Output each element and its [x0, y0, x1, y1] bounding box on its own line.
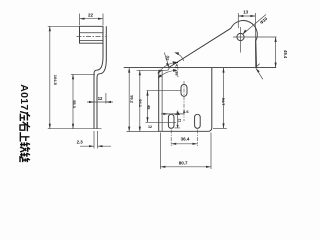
knuckle crosshair vertical: [240, 27, 242, 53]
slot2 centerline: [170, 130, 172, 147]
slot2 length arrows: [177, 112, 179, 128]
top width dim left ext: [79, 14, 81, 26]
dim 94.7 line: [223, 68, 225, 129]
svg-text:94.1: 94.1: [138, 99, 143, 108]
top width dim right ext: [102, 14, 104, 26]
corner angle arrow: [256, 68, 260, 72]
dim 49.4 line: [275, 37, 277, 68]
svg-text:38°: 38°: [174, 71, 179, 77]
dim 104.5 line: [49, 26, 51, 128]
step offset arrows: [89, 101, 111, 103]
svg-text:2.3: 2.3: [77, 139, 84, 144]
slot1 centerline: [183, 81, 185, 121]
knuckle crosshair horizontal: [233, 36, 277, 38]
dim 80.7 ext lines: [160, 133, 211, 170]
dim 13 line: [238, 15, 255, 17]
dim 99.2 line: [128, 68, 130, 132]
slot3 centerline: [196, 130, 198, 147]
dim 55.3 arrows: [72, 74, 74, 128]
svg-text:55.3: 55.3: [72, 100, 77, 109]
tab (top flange) outline: [80, 26, 104, 43]
plate outline: [159, 21, 258, 132]
dim 10 arrow: [166, 63, 169, 68]
slot width arrows: [163, 113, 179, 115]
dim 48.2 arrows: [146, 91, 148, 123]
dim 55.3 line: [72, 74, 74, 128]
ext slot1 center: [147, 90, 182, 92]
mid step ext line: [71, 73, 95, 75]
web inner edge: [94, 43, 103, 129]
dim 13 ext right: [254, 13, 256, 68]
svg-text:A017: A017: [18, 84, 30, 110]
bottom thickness dim line: [80, 145, 111, 147]
bend angle arc 1: [158, 62, 177, 73]
dim 36.4 arrows: [171, 143, 197, 145]
knuckle arc: [231, 21, 257, 41]
arm cross arc: [175, 53, 184, 61]
step offset dim ext: [105, 93, 107, 104]
tab centerline: [77, 36, 106, 38]
svg-text:22: 22: [88, 12, 94, 17]
arm left edge: [169, 28, 231, 67]
bottom ext left: [127, 130, 159, 132]
dim 49.4 arrows: [275, 37, 277, 68]
slot2: [168, 114, 174, 128]
bottom datum line: [48, 128, 102, 130]
svg-text:36.4: 36.4: [181, 136, 190, 141]
svg-text:12: 12: [148, 125, 152, 129]
corner angle tick: [256, 64, 259, 67]
char 右: [20, 122, 30, 131]
svg-text:48: 48: [147, 105, 152, 110]
svg-text:94.7: 94.7: [221, 98, 226, 107]
char 左: [20, 112, 30, 121]
svg-text:80.7: 80.7: [179, 161, 188, 166]
slot3: [195, 114, 201, 128]
top width dim arrows: [80, 18, 104, 20]
dim 36.4: [171, 143, 197, 145]
slot width dim line: [161, 113, 184, 115]
slot1: [181, 85, 187, 97]
svg-text:8.6: 8.6: [183, 109, 189, 114]
tab bend line upper: [80, 32, 104, 34]
svg-text:49.4: 49.4: [283, 50, 288, 59]
bottom thickness ext lines: [94, 131, 98, 149]
dim 10 leader: [164, 53, 169, 68]
svg-text:141°: 141°: [174, 62, 179, 71]
svg-text:99.2: 99.2: [129, 95, 134, 104]
dim 94.7 arrows: [222, 68, 224, 129]
step offset dim line: [87, 101, 113, 103]
title A017 left/right upper hinge (rotated): [18, 84, 30, 110]
dim 104.5 arrows: [49, 26, 51, 128]
dim 80.7 line: [160, 166, 211, 168]
knuckle circle: [237, 33, 244, 40]
svg-text:21: 21: [178, 119, 182, 123]
knuckle leader arrow: [243, 30, 247, 35]
web outer edge: [97, 26, 106, 128]
dim 80.7 arrows: [160, 166, 211, 168]
char 上: [20, 132, 29, 141]
slot2 length ticks: [175, 115, 181, 128]
dim 48.2 line: [147, 91, 149, 123]
svg-text:12: 12: [98, 96, 103, 101]
char 链: [20, 153, 30, 162]
ext slot23 center: [146, 121, 177, 123]
slot2 length dim: [177, 111, 179, 128]
char 铰: [20, 142, 30, 151]
dim 13 ext left: [237, 13, 239, 28]
knuckle leader line: [243, 15, 266, 35]
dim 99.2 arrows: [128, 68, 130, 132]
tab bend line lower: [80, 40, 104, 42]
dim 94.7 ext: [213, 127, 227, 129]
bottom thickness arrows: [89, 145, 103, 147]
dim 94.1 line: [139, 70, 141, 131]
svg-text:104.5: 104.5: [53, 75, 58, 86]
dim 94.1 arrows: [139, 70, 141, 131]
ext line y72.7: [137, 68, 170, 70]
corner angle diagonal: [256, 68, 263, 79]
arm right edge: [255, 41, 258, 68]
svg-text:13: 13: [243, 10, 248, 15]
bend angle arc 2: [158, 70, 177, 78]
left height ext line top: [48, 25, 80, 27]
inner bend line left: [161, 71, 163, 132]
dim 13 arrows: [238, 15, 255, 17]
top edge long line: [124, 67, 277, 69]
top width dim line: [80, 18, 104, 20]
